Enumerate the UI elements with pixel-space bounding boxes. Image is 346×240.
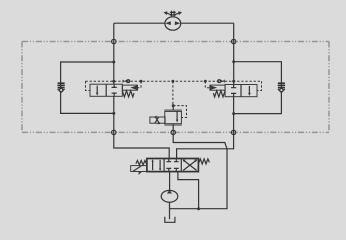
wire pump to tank xyxy=(169,202,171,219)
check valve CV1 (left bypass) xyxy=(57,83,64,92)
node pilot rail left hook xyxy=(140,80,143,83)
wire valve T port to tank line xyxy=(178,172,199,209)
port bottom left xyxy=(112,130,116,134)
wire left check bypass loop xyxy=(61,62,114,113)
node pilot rail center branch xyxy=(171,80,174,83)
RV1 spring box xyxy=(150,117,165,123)
node right check bottom xyxy=(232,112,235,115)
wire relief outlet xyxy=(172,124,174,133)
counterbalance valve V1 body (left) xyxy=(90,84,138,97)
port bottom center xyxy=(171,130,175,134)
V1 spring xyxy=(122,91,134,97)
hydraulic motor M1 xyxy=(164,11,183,30)
pilot hook to left triangle xyxy=(138,81,141,88)
junction dots solid lines xyxy=(112,60,235,210)
port B (top right) xyxy=(232,39,236,43)
pilot drain hook right valve xyxy=(257,81,262,90)
wire motor left line xyxy=(114,22,165,24)
wire relief pilot stub xyxy=(172,106,174,111)
check valve CV2 (right bypass) xyxy=(278,83,285,92)
node right check top xyxy=(232,60,235,63)
DV1 left spring xyxy=(136,161,147,165)
node pilot rail on left main xyxy=(112,80,115,83)
RV1 internal arrow xyxy=(176,111,178,120)
orifice with check O2 (right pilot) xyxy=(218,79,225,83)
RV1 adjust arrow xyxy=(155,116,160,124)
node relief pilot tap xyxy=(172,104,175,107)
wire right main vertical upper xyxy=(233,23,235,84)
node tank line junction xyxy=(197,207,200,210)
node left check bottom xyxy=(112,112,115,115)
DV1 proportional solenoid xyxy=(131,166,147,172)
pump P1 xyxy=(161,190,178,202)
wire right check bypass loop xyxy=(234,62,282,114)
V2 left position blocked ports xyxy=(231,85,236,97)
directional valve DV1 body xyxy=(131,159,210,175)
wire pump to valve P port xyxy=(169,172,171,191)
V1 pilot triangle xyxy=(130,85,137,90)
pilot hook to right triangle xyxy=(205,81,210,88)
tank T1 xyxy=(165,217,175,223)
V2 pilot triangle xyxy=(210,85,217,90)
V2 spring xyxy=(213,91,225,97)
port bottom right xyxy=(231,130,235,134)
V1 right position blocked ports xyxy=(112,84,117,96)
node pilot rail right hook xyxy=(204,80,207,83)
wire left main vertical lower xyxy=(114,96,169,158)
port A (top left) xyxy=(112,39,116,43)
pilot drain hook left valve xyxy=(86,81,91,90)
enclosure boundary (dash-dot manifold outline) xyxy=(22,42,329,133)
DV1 center position blocked ports xyxy=(166,159,178,172)
counterbalance valve V2 body (right) xyxy=(210,85,257,97)
pilot branch to center relief xyxy=(172,81,174,105)
wire relief to tank route xyxy=(170,132,228,208)
V1 left position flow arrow xyxy=(96,86,98,94)
relief remote pilot loop xyxy=(173,106,186,118)
DV1 right position crossed arrows xyxy=(183,160,196,170)
node left check top xyxy=(112,61,115,64)
V2 pilot box xyxy=(210,85,225,90)
node pilot rail on right main xyxy=(232,80,235,83)
V1 pilot box xyxy=(122,85,137,90)
DV1 right spring xyxy=(198,159,209,164)
wire left main vertical upper xyxy=(113,23,115,84)
V2 right position flow arrow xyxy=(248,86,250,94)
pilot line rail (dashed) xyxy=(86,81,262,117)
DV1 left position arrows xyxy=(152,161,154,171)
wire right main vertical lower / B line xyxy=(177,97,234,159)
orifice with check O1 (left pilot) xyxy=(123,79,130,83)
pilot relief valve RV1 (center) xyxy=(150,110,182,125)
wire motor right line xyxy=(181,22,234,24)
